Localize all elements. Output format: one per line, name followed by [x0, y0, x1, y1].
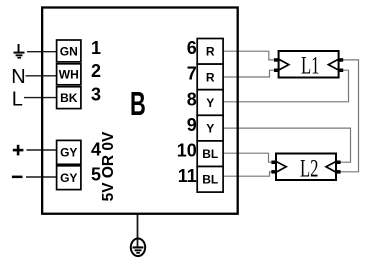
svg-text:GN: GN: [60, 44, 78, 58]
svg-text:R: R: [206, 45, 215, 59]
wire ground stem: [137, 213, 139, 247]
terminal 1 GN: [57, 40, 81, 62]
svg-text:10: 10: [177, 141, 197, 161]
svg-text:5: 5: [91, 165, 101, 185]
svg-text:GY: GY: [60, 146, 77, 160]
wire terminal 11 to L2 left pin 2: [223, 172, 272, 176]
svg-text:1: 1: [91, 38, 101, 58]
svg-text:WH: WH: [59, 68, 79, 82]
svg-text:GY: GY: [60, 171, 77, 185]
ballast box B: [42, 8, 238, 214]
svg-text:L: L: [12, 88, 23, 110]
svg-text:R: R: [206, 70, 215, 84]
wire terminal 6 to L1 left pin 1: [223, 51, 274, 60]
wire terminal 7 to L1 left pin 2: [223, 70, 274, 77]
svg-text:N: N: [11, 66, 25, 88]
wire + to terminal 4: [27, 149, 57, 151]
svg-text:4: 4: [91, 139, 101, 159]
wire terminal 10 to L2 left pin 1: [223, 153, 272, 162]
svg-text:BK: BK: [60, 91, 78, 105]
terminal 5 GY: [57, 166, 81, 190]
protective earth symbol bottom: [131, 239, 145, 257]
wire L to terminal 3: [24, 97, 57, 99]
svg-text:BL: BL: [202, 173, 218, 187]
svg-text:L2: L2: [300, 155, 319, 182]
wire - to terminal 5: [26, 176, 57, 178]
svg-text:B: B: [130, 85, 146, 122]
svg-text:BL: BL: [202, 147, 218, 161]
svg-text:2: 2: [91, 61, 101, 81]
terminal 8 Y: [197, 90, 223, 116]
wire terminal 8 to L1 right pin 2: [223, 70, 349, 102]
wire N to terminal 2: [26, 75, 57, 77]
terminal 11 BL: [197, 167, 223, 193]
wire L1 right pin 1 to L2 right pin 2: [341, 60, 359, 172]
svg-text:Y: Y: [206, 121, 214, 135]
lamp L2: [271, 154, 340, 183]
lamp L1: [274, 51, 343, 79]
terminal 2 WH: [57, 64, 81, 85]
terminal 9 Y: [197, 115, 223, 141]
svg-text:7: 7: [187, 64, 197, 84]
svg-text:3: 3: [91, 85, 101, 105]
svg-text:9: 9: [187, 115, 197, 135]
svg-text:8: 8: [187, 89, 197, 109]
terminal 4 GY: [57, 140, 81, 164]
terminal 10 BL: [197, 141, 223, 167]
svg-text:Y: Y: [206, 96, 214, 110]
minus symbol: [12, 176, 23, 179]
terminal 7 R: [197, 64, 223, 90]
terminal 3 BK: [57, 87, 81, 109]
svg-text:5V OR 0V: 5V OR 0V: [100, 131, 117, 201]
earth symbol left: [14, 44, 25, 59]
svg-text:6: 6: [187, 38, 197, 58]
plus symbol: [13, 145, 24, 156]
terminal 6 R: [197, 39, 223, 65]
wire terminal 9 to L2 right pin 1: [223, 128, 351, 162]
svg-text:L1: L1: [301, 52, 320, 79]
wire earth to terminal 1: [27, 51, 57, 53]
svg-text:11: 11: [178, 166, 197, 186]
